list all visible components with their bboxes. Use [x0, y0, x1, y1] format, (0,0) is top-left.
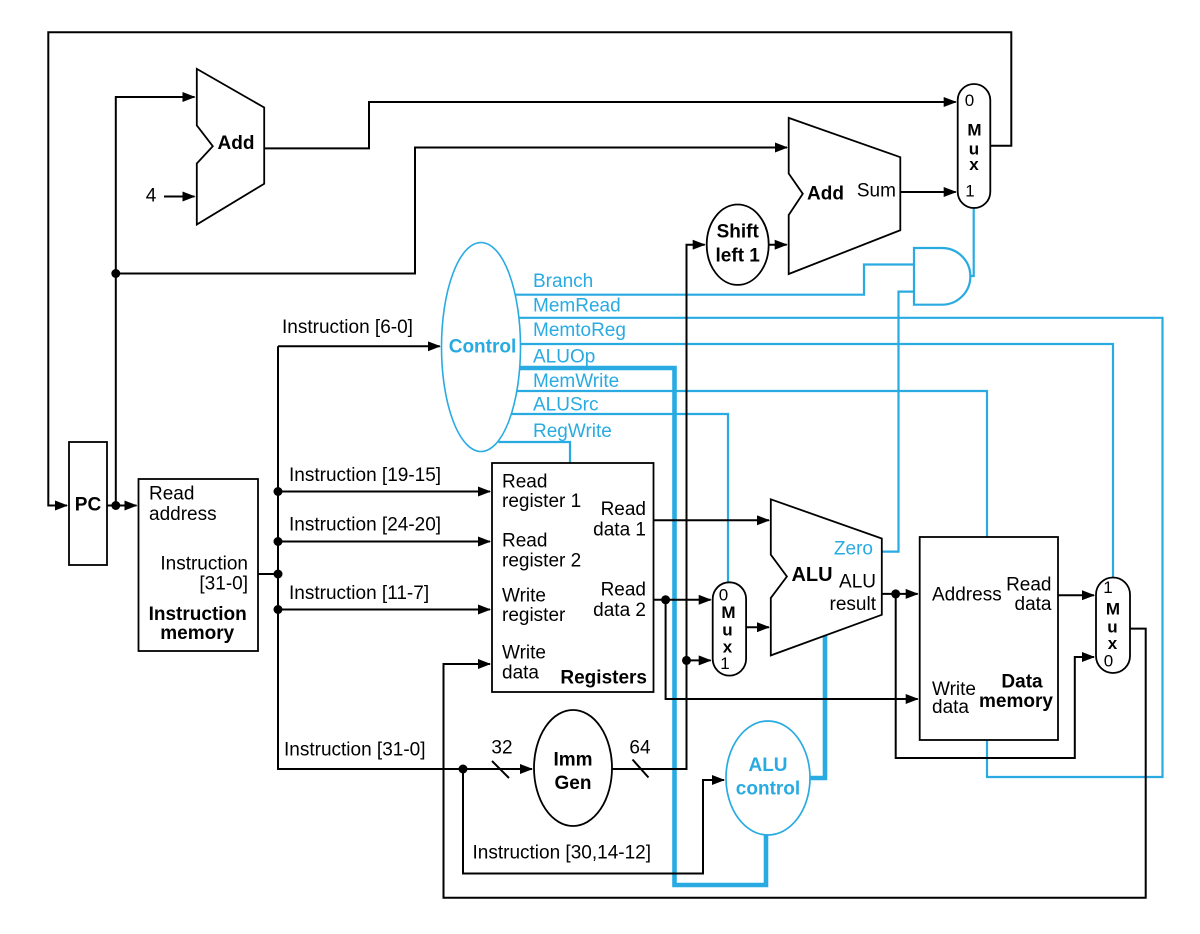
wire RegWrite signal — [498, 442, 570, 463]
svg-text:64: 64 — [629, 738, 651, 759]
wire PC to instruction memory — [107, 505, 137, 507]
wire Instruction [11-7] to Write register — [278, 609, 490, 611]
register PC — [69, 442, 107, 565]
svg-text:Zero: Zero — [834, 539, 873, 560]
wire Branch signal — [515, 265, 914, 295]
wire top mux output loop to PC — [48, 32, 1011, 505]
svg-text:0: 0 — [719, 586, 728, 605]
svg-text:1: 1 — [965, 182, 974, 201]
svg-text:Instruction [31-0]: Instruction [31-0] — [284, 740, 426, 761]
svg-text:Read: Read — [149, 484, 194, 505]
node PC output junction — [111, 501, 120, 510]
wire Instruction [24-20] to Read register 2 — [278, 541, 490, 543]
AND gate — [914, 248, 970, 305]
svg-text:data: data — [932, 697, 969, 718]
wire ALU result to right mux input 0 — [896, 594, 1094, 758]
ALU control ellipse — [726, 721, 810, 835]
node instruction bus junction 19-15 — [274, 487, 283, 496]
svg-text:Add: Add — [218, 133, 255, 154]
adder Add1 — [197, 69, 264, 225]
wire ALU control to ALU (thick) — [810, 635, 825, 778]
node PC branch junction — [111, 269, 120, 278]
svg-text:Write: Write — [502, 643, 546, 664]
mux top — [958, 84, 991, 208]
svg-text:data: data — [1015, 594, 1052, 615]
svg-text:Gen: Gen — [555, 773, 592, 794]
wire constant 4 into Add1 — [164, 196, 195, 198]
svg-text:x: x — [1108, 634, 1118, 653]
wire ALUOp signal (thick) — [520, 368, 766, 885]
svg-text:data 1: data 1 — [593, 520, 646, 541]
svg-text:Read: Read — [601, 580, 646, 601]
wire MemRead signal — [519, 318, 1163, 777]
node instruction bus junction main — [274, 570, 283, 579]
svg-text:control: control — [736, 779, 800, 800]
mux mid — [713, 582, 746, 675]
node imm gen output junction — [682, 656, 691, 665]
svg-text:Instruction [6-0]: Instruction [6-0] — [282, 317, 413, 338]
svg-text:left 1: left 1 — [716, 246, 761, 267]
control ellipse — [442, 243, 521, 452]
wire data memory Read data to right mux input 1 — [1058, 594, 1094, 596]
mux right — [1096, 578, 1130, 674]
svg-text:register 2: register 2 — [502, 551, 581, 572]
svg-text:1: 1 — [720, 654, 729, 673]
svg-text:Add: Add — [807, 184, 844, 205]
svg-text:Instruction: Instruction — [149, 604, 247, 625]
svg-text:Read: Read — [502, 531, 547, 552]
wire instruction bus vertical — [278, 346, 532, 769]
wire mid mux output to ALU — [746, 626, 769, 628]
svg-text:memory: memory — [979, 691, 1053, 712]
svg-text:ALU: ALU — [748, 755, 787, 776]
svg-text:Control: Control — [449, 337, 517, 358]
svg-text:Shift: Shift — [717, 222, 760, 243]
wire instruction memory output to bus — [258, 573, 278, 575]
wire PC to Add1 — [116, 97, 195, 506]
svg-text:Imm: Imm — [553, 750, 592, 771]
svg-text:Address: Address — [932, 585, 1002, 606]
wire Read data 1 to ALU — [654, 519, 770, 521]
node read data 2 junction — [661, 595, 670, 604]
wire Instruction [6-0] to Control — [278, 345, 440, 347]
svg-text:M: M — [1106, 600, 1120, 619]
svg-text:MemWrite: MemWrite — [533, 371, 619, 392]
node instruction bus junction 24-20 — [274, 537, 283, 546]
svg-text:Instruction: Instruction — [160, 554, 248, 575]
svg-text:RegWrite: RegWrite — [533, 421, 612, 442]
shift left 1 ellipse — [707, 205, 769, 285]
svg-text:ALU: ALU — [839, 572, 876, 593]
svg-text:[31-0]: [31-0] — [199, 574, 248, 595]
node ALU result junction — [891, 589, 900, 598]
svg-text:32: 32 — [491, 738, 512, 759]
wire Add1 output to top mux input 0 — [265, 102, 956, 148]
svg-text:result: result — [830, 594, 877, 615]
wire Read data 2 to data memory Write data — [666, 600, 918, 699]
wire Shift left 1 output to Add2 — [769, 244, 787, 246]
wire Read data 2 to mid mux input 0 — [654, 599, 711, 601]
svg-text:ALU: ALU — [791, 564, 832, 586]
data memory box — [920, 537, 1058, 740]
wire Instruction [30,14-12] to ALU control — [463, 769, 724, 874]
svg-text:0: 0 — [965, 91, 974, 110]
node instruction bus junction 11-7 — [274, 605, 283, 614]
svg-text:data: data — [502, 663, 539, 684]
svg-text:Instruction [24-20]: Instruction [24-20] — [289, 515, 441, 536]
svg-text:MemRead: MemRead — [533, 296, 621, 317]
wire Instruction [19-15] to Read register 1 — [278, 491, 490, 493]
svg-text:Write: Write — [502, 586, 546, 607]
registers box — [492, 463, 654, 692]
svg-text:Registers: Registers — [560, 668, 647, 689]
svg-text:register 1: register 1 — [502, 491, 581, 512]
svg-text:M: M — [721, 603, 735, 622]
svg-text:Sum: Sum — [857, 181, 896, 202]
svg-text:register: register — [502, 605, 566, 626]
svg-text:0: 0 — [1104, 651, 1113, 670]
bus width slash 32 — [492, 761, 509, 778]
wire Imm Gen output to Shift left 1 — [612, 245, 705, 769]
svg-text:1: 1 — [1103, 578, 1112, 597]
bus width slash 64 — [633, 760, 649, 778]
instruction memory box — [139, 479, 259, 651]
svg-text:Read: Read — [1006, 575, 1051, 596]
adder Add2 — [789, 118, 901, 274]
svg-text:ALUOp: ALUOp — [533, 346, 595, 367]
svg-text:data 2: data 2 — [593, 600, 646, 621]
imm gen ellipse — [534, 710, 612, 826]
svg-text:Read: Read — [601, 499, 646, 520]
wire AND gate output to top mux select — [963, 208, 974, 276]
svg-text:memory: memory — [160, 623, 234, 644]
svg-text:4: 4 — [146, 186, 157, 207]
svg-text:Read: Read — [502, 472, 547, 493]
svg-text:MemtoReg: MemtoReg — [533, 320, 626, 341]
svg-text:Data: Data — [1001, 672, 1043, 693]
node instruction 31-0 junction — [459, 765, 468, 774]
wire MemtoReg signal — [521, 344, 1114, 578]
wire ALU result to data memory Address — [882, 593, 918, 595]
svg-text:M: M — [967, 121, 981, 140]
svg-text:address: address — [149, 504, 217, 525]
wire MemWrite signal — [517, 391, 987, 537]
wire ALUSrc signal — [511, 414, 728, 582]
svg-text:Instruction [11-7]: Instruction [11-7] — [289, 583, 429, 604]
svg-text:Instruction [30,14-12]: Instruction [30,14-12] — [473, 843, 652, 864]
wire Imm Gen output to mid mux input 1 — [687, 659, 711, 661]
svg-text:PC: PC — [75, 495, 102, 516]
svg-text:ALUSrc: ALUSrc — [533, 395, 598, 416]
wire right mux output to Registers Write data — [444, 629, 1146, 898]
ALU — [771, 499, 882, 655]
svg-text:x: x — [969, 155, 979, 174]
wire Add2 Sum output to top mux input 1 — [900, 191, 955, 193]
wire PC to Add2 — [116, 148, 787, 274]
svg-text:Instruction [19-15]: Instruction [19-15] — [289, 465, 441, 486]
wire Zero signal — [882, 292, 915, 552]
svg-text:Branch: Branch — [533, 271, 593, 292]
